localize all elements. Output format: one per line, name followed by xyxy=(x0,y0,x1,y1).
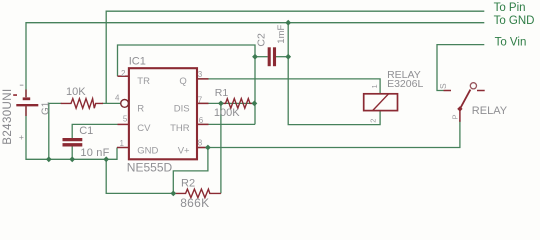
svg-text:4: 4 xyxy=(115,93,120,102)
svg-text:TR: TR xyxy=(137,76,150,87)
wire V+ net to switch pole xyxy=(197,120,460,148)
svg-text:DIS: DIS xyxy=(174,104,190,115)
wire THR to C2/R1 node xyxy=(197,123,255,125)
svg-text:+: + xyxy=(19,132,24,142)
pin 8 V+ stub xyxy=(197,147,208,149)
svg-text:10K: 10K xyxy=(66,86,86,98)
pin 7 DIS stub xyxy=(197,102,209,104)
wire V+ node jog down to R2 left node xyxy=(173,148,208,194)
svg-text:E3206L: E3206L xyxy=(387,78,423,90)
svg-text:IC1: IC1 xyxy=(129,55,146,67)
wire C2 right plate to GND branch xyxy=(276,56,288,58)
IC U1 NE555D body xyxy=(129,68,197,159)
svg-text:G1: G1 xyxy=(40,101,51,115)
junction dot node DIS / R1 / R2 xyxy=(218,101,224,107)
relay K1 coil box xyxy=(364,94,398,111)
junction dot node GND line / relay branch xyxy=(285,20,291,26)
svg-text:CV: CV xyxy=(137,123,151,134)
svg-text:2: 2 xyxy=(121,69,126,78)
junction dot node TR / C2 xyxy=(252,54,258,60)
battery G1 plus plate (long) xyxy=(16,104,38,106)
svg-text:1: 1 xyxy=(370,84,379,88)
svg-text:V+: V+ xyxy=(178,146,190,157)
wire DIS node down to R2 right xyxy=(220,103,222,193)
svg-text:Q: Q xyxy=(179,76,186,87)
svg-text:C1: C1 xyxy=(79,125,93,137)
resistor 10K xyxy=(61,99,103,109)
svg-text:7: 7 xyxy=(198,95,203,104)
svg-text:B2430UNI: B2430UNI xyxy=(2,88,14,144)
relay switch lever xyxy=(460,90,471,109)
svg-text:R1: R1 xyxy=(215,87,229,99)
wire Q output to relay coil top xyxy=(197,79,380,94)
junction dot node R2 left / V+ jog xyxy=(170,191,176,197)
svg-text:3: 3 xyxy=(198,70,203,79)
wire 10K to R pin xyxy=(102,102,121,104)
battery minus sign xyxy=(20,85,24,86)
svg-text:100K: 100K xyxy=(214,107,240,119)
svg-text:RELAY: RELAY xyxy=(472,105,508,117)
svg-text:GND: GND xyxy=(137,146,158,157)
wire To Pin net xyxy=(106,11,484,103)
battery G1 leads xyxy=(25,90,27,98)
svg-text:To Pin: To Pin xyxy=(494,2,526,14)
wire To GND net xyxy=(26,23,484,97)
svg-text:R2: R2 xyxy=(181,177,195,189)
svg-text:2: 2 xyxy=(368,119,377,123)
svg-text:6: 6 xyxy=(199,116,204,125)
svg-text:C2: C2 xyxy=(255,33,267,47)
svg-text:To GND: To GND xyxy=(494,15,535,27)
resistor R2 xyxy=(173,189,221,198)
relay switch P pole stub xyxy=(459,109,461,122)
wire DIS to R1 xyxy=(197,102,254,104)
relay switch pivot dot xyxy=(457,106,462,111)
pin 4 R inversion bubble xyxy=(121,100,129,108)
svg-text:8: 8 xyxy=(198,139,203,148)
pin 2 TR stub xyxy=(118,75,129,77)
wire TR net to C2 and THR xyxy=(118,45,256,124)
wire GND branch to relay coil bottom xyxy=(288,23,380,125)
wire C1 bottom to rail xyxy=(71,145,73,159)
pin 6 THR stub xyxy=(197,123,209,125)
junction dot node rail / C1 xyxy=(69,156,75,162)
wire To Vin to switch S contact xyxy=(437,45,484,91)
pin 1 GND stub xyxy=(117,147,129,149)
wire GND rail xyxy=(26,104,117,159)
battery G1 minus plate (short thick) xyxy=(23,97,31,100)
wire C1 top to CV pin xyxy=(72,124,117,141)
svg-text:To Vin: To Vin xyxy=(495,36,527,48)
wire battery to 10K xyxy=(49,103,62,159)
svg-text:866K: 866K xyxy=(180,196,209,210)
pin 5 CV stub xyxy=(118,123,129,125)
svg-text:1: 1 xyxy=(120,139,125,148)
junction dot node C2 right / GND branch xyxy=(285,54,291,60)
resistor R1 xyxy=(221,99,255,109)
svg-text:NE555D: NE555D xyxy=(127,161,173,175)
junction dot node rail / 10K branch xyxy=(46,156,52,162)
svg-text:10 nF: 10 nF xyxy=(80,147,109,159)
svg-text:THR: THR xyxy=(170,123,190,134)
svg-text:1mF: 1mF xyxy=(276,25,287,44)
capacitor C1 plates xyxy=(63,138,83,141)
capacitor C2 plates xyxy=(268,47,271,66)
junction dot node R1 / C2-THR vertical xyxy=(252,101,258,107)
wire R2 left node to GND rail xyxy=(106,159,173,193)
wire TR net branch to C2 left plate xyxy=(255,56,268,58)
junction dot node V+ xyxy=(205,145,211,151)
pin 3 Q stub xyxy=(197,78,209,80)
relay switch S contact stub xyxy=(444,90,452,92)
relay switch O contact stub xyxy=(477,90,485,92)
svg-text:R: R xyxy=(137,104,144,115)
svg-text:5: 5 xyxy=(123,114,128,123)
svg-text:S: S xyxy=(438,83,448,89)
junction dot node rail / R2 branch xyxy=(103,156,109,162)
svg-text:P: P xyxy=(450,114,459,119)
relay switch O contact circle xyxy=(470,83,476,89)
